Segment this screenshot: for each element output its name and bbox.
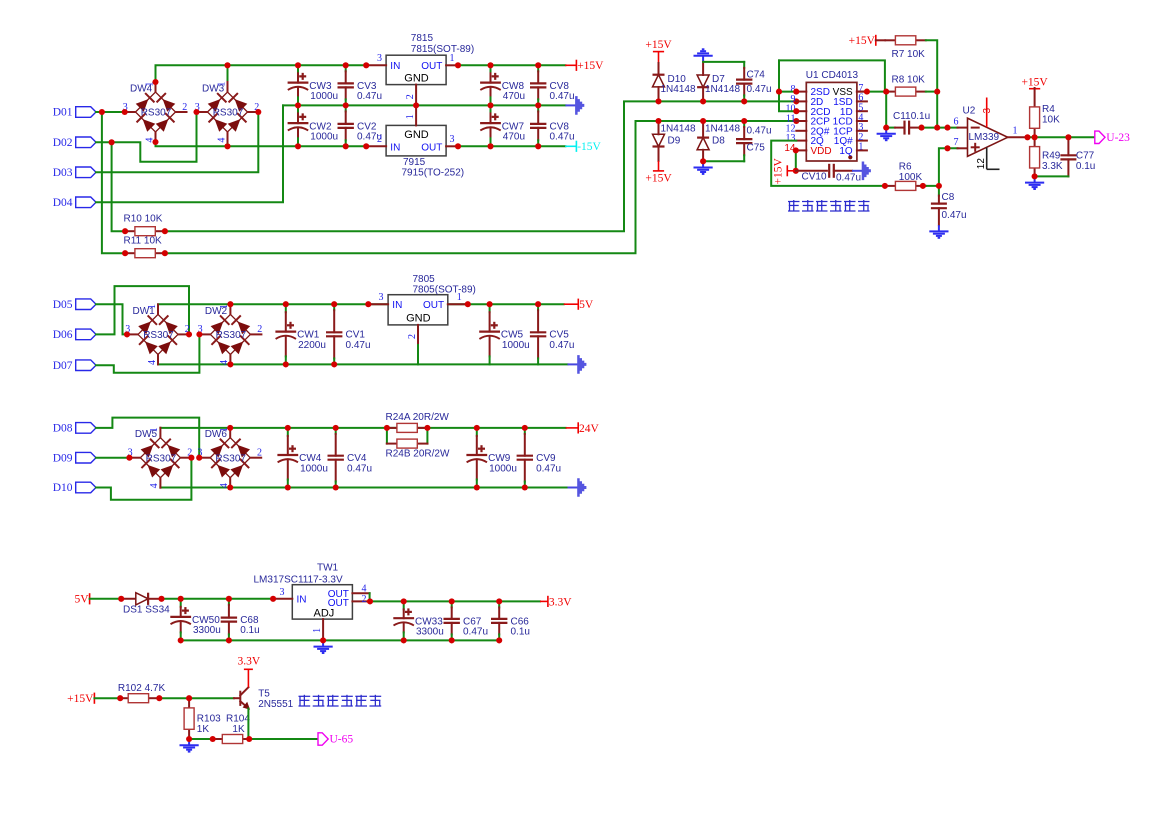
svg-text:0.1u: 0.1u bbox=[240, 625, 259, 636]
pin 7 of U2 bbox=[958, 147, 968, 149]
junction bbox=[496, 598, 502, 604]
svg-text:2: 2 bbox=[257, 324, 262, 335]
junction bbox=[883, 89, 889, 95]
junction bbox=[343, 62, 349, 68]
svg-text:0.47u: 0.47u bbox=[346, 340, 371, 351]
pin 2 (GND) of 7815 bbox=[415, 85, 417, 106]
resistor R103 bbox=[184, 697, 221, 739]
svg-text:3: 3 bbox=[379, 292, 384, 303]
junction bbox=[449, 637, 455, 643]
junction bbox=[700, 158, 706, 164]
bridge rectifier DW4 bbox=[123, 82, 188, 143]
svg-text:0.47u: 0.47u bbox=[747, 84, 772, 95]
wire bbox=[886, 127, 895, 129]
capacitor C67 bbox=[444, 601, 489, 640]
stub to 24V bbox=[566, 427, 579, 429]
svg-text:CV10: CV10 bbox=[802, 171, 827, 182]
wire bbox=[227, 65, 229, 82]
power 3.3V bbox=[548, 596, 572, 609]
junction bbox=[226, 596, 232, 602]
pin 3 of U2 bbox=[986, 98, 988, 128]
svg-text:7915(TO-252): 7915(TO-252) bbox=[402, 168, 465, 179]
junction bbox=[793, 168, 799, 174]
capacitor CV3 bbox=[338, 65, 383, 105]
svg-text:1K: 1K bbox=[197, 724, 210, 735]
regulator TW1 LM317 bbox=[254, 563, 353, 620]
wire bbox=[779, 60, 885, 91]
svg-text:1: 1 bbox=[312, 628, 323, 633]
bridge rectifier DW6 bbox=[197, 427, 262, 488]
junction bbox=[162, 250, 168, 256]
svg-text:R102 4.7K: R102 4.7K bbox=[118, 683, 166, 694]
svg-text:C8: C8 bbox=[942, 192, 955, 203]
junction bbox=[944, 125, 950, 131]
wire bbox=[938, 186, 940, 196]
svg-text:470u: 470u bbox=[503, 131, 525, 142]
svg-text:C74: C74 bbox=[747, 69, 766, 80]
capacitor CW4 bbox=[277, 428, 328, 488]
svg-text:R103: R103 bbox=[197, 714, 221, 725]
wire bbox=[417, 345, 419, 364]
capacitor CV9 bbox=[517, 428, 562, 488]
junction bbox=[126, 455, 132, 461]
svg-text:7805(SOT-89): 7805(SOT-89) bbox=[413, 285, 476, 296]
capacitor CW3 bbox=[288, 65, 339, 105]
pin of C11 bbox=[895, 127, 905, 129]
pin of C8 bbox=[938, 196, 940, 204]
junction bbox=[178, 637, 184, 643]
diode D10 bbox=[653, 75, 665, 87]
junction bbox=[227, 361, 233, 367]
svg-text:0.47u: 0.47u bbox=[747, 126, 772, 137]
junction bbox=[333, 425, 339, 431]
power ground arrow bbox=[565, 96, 584, 115]
power +15V bbox=[1021, 76, 1048, 88]
junction bbox=[343, 143, 349, 149]
svg-text:D05: D05 bbox=[53, 299, 73, 311]
wire bbox=[160, 487, 567, 489]
svg-text:U2: U2 bbox=[963, 106, 976, 117]
junction bbox=[455, 62, 461, 68]
svg-text:0.47u: 0.47u bbox=[463, 627, 488, 638]
junction bbox=[1024, 134, 1030, 140]
svg-text:1: 1 bbox=[216, 82, 227, 87]
capacitor C66 bbox=[491, 601, 530, 640]
pin of D9 bbox=[658, 147, 660, 162]
port D01 bbox=[53, 107, 96, 119]
svg-text:D09: D09 bbox=[53, 452, 73, 464]
svg-text:U-23: U-23 bbox=[1106, 132, 1130, 144]
pin 6 of U1 bbox=[857, 100, 867, 102]
wire bbox=[160, 427, 565, 429]
svg-text:1000u: 1000u bbox=[489, 463, 517, 474]
svg-text:GND: GND bbox=[406, 313, 431, 325]
wire bbox=[926, 40, 937, 127]
junction bbox=[413, 102, 419, 108]
bridge rectifier DW1 bbox=[125, 304, 190, 365]
pin of D8 bbox=[702, 121, 704, 138]
pin of D10 bbox=[658, 63, 660, 75]
svg-text:1: 1 bbox=[1013, 126, 1018, 137]
svg-text:+15V: +15V bbox=[645, 173, 672, 185]
text 电源掉电检测 bbox=[299, 695, 382, 707]
power 24V bbox=[578, 422, 599, 435]
wire bbox=[885, 92, 887, 128]
resistor R7 bbox=[885, 36, 925, 60]
diode D9 bbox=[653, 134, 665, 146]
junction bbox=[920, 183, 926, 189]
svg-text:2: 2 bbox=[182, 102, 187, 113]
svg-text:RS307: RS307 bbox=[215, 453, 246, 464]
wire bbox=[162, 598, 274, 600]
power ground arrow at CV10 bbox=[852, 162, 871, 181]
capacitor CW9 bbox=[466, 428, 517, 488]
junction bbox=[152, 79, 158, 85]
pin 7 of U1 bbox=[857, 91, 867, 93]
pin 6 of U2 bbox=[958, 127, 968, 129]
pin of CV10 bbox=[834, 170, 852, 172]
pin 1 of 7815 bbox=[446, 64, 458, 66]
pin of D9 bbox=[658, 121, 660, 134]
junction bbox=[283, 361, 289, 367]
junction bbox=[918, 125, 924, 131]
svg-text:0.1u: 0.1u bbox=[911, 111, 930, 122]
junction bbox=[246, 736, 252, 742]
wire bbox=[370, 600, 540, 602]
stub to 3.3V bbox=[540, 600, 548, 602]
wire bbox=[96, 457, 129, 459]
junction bbox=[118, 596, 124, 602]
pin 12 of U2 bbox=[987, 147, 1000, 169]
junction bbox=[864, 89, 870, 95]
svg-text:C11: C11 bbox=[893, 111, 911, 122]
junction bbox=[295, 143, 301, 149]
pin 3 of TW1 bbox=[273, 598, 292, 600]
junction bbox=[535, 102, 541, 108]
pin 8 of U1 bbox=[796, 91, 806, 93]
junction bbox=[741, 118, 747, 124]
wire bbox=[458, 145, 565, 147]
junction bbox=[224, 62, 230, 68]
svg-text:0.47u: 0.47u bbox=[536, 463, 561, 474]
junction bbox=[700, 118, 706, 124]
junction bbox=[178, 596, 184, 602]
pin 3 of 7805 bbox=[368, 303, 388, 305]
junction bbox=[283, 301, 289, 307]
junction bbox=[295, 62, 301, 68]
wire bbox=[779, 60, 796, 111]
junction bbox=[465, 301, 471, 307]
svg-text:1K: 1K bbox=[232, 724, 245, 735]
power +15V bbox=[565, 60, 604, 72]
junction bbox=[522, 425, 528, 431]
pin of D8 bbox=[702, 150, 704, 162]
pin of D7 bbox=[702, 62, 704, 75]
junction bbox=[186, 736, 192, 742]
pin 12 of U1 bbox=[796, 130, 806, 132]
junction bbox=[224, 143, 230, 149]
wire bbox=[96, 141, 112, 143]
wire to +15V bbox=[658, 161, 660, 171]
junction bbox=[188, 455, 194, 461]
wire bbox=[227, 142, 229, 146]
svg-text:3.3K: 3.3K bbox=[1042, 161, 1063, 172]
svg-text:3: 3 bbox=[982, 108, 993, 114]
svg-text:ADJ: ADJ bbox=[314, 608, 335, 620]
pin 2 of U1 bbox=[857, 140, 867, 142]
wire bbox=[156, 65, 367, 82]
svg-text:3.3V: 3.3V bbox=[549, 596, 572, 608]
junction bbox=[741, 98, 747, 104]
junction bbox=[793, 147, 799, 153]
svg-text:1N4148: 1N4148 bbox=[705, 84, 740, 95]
pin 13 of U1 bbox=[796, 140, 806, 142]
svg-text:10K: 10K bbox=[1042, 115, 1060, 126]
svg-text:LM317SC1117-3.3V: LM317SC1117-3.3V bbox=[254, 575, 343, 586]
pin 10 of U1 bbox=[796, 110, 806, 112]
wire bbox=[369, 593, 371, 601]
svg-text:4: 4 bbox=[149, 483, 160, 488]
pin 1 (ADJ) of TW1 bbox=[322, 619, 324, 640]
power +15V at R7 bbox=[849, 35, 876, 47]
junction bbox=[1032, 134, 1038, 140]
diode D8 bbox=[697, 138, 709, 150]
svg-text:+15V: +15V bbox=[645, 39, 672, 51]
junction bbox=[522, 484, 528, 490]
junction bbox=[365, 301, 371, 307]
junction bbox=[655, 118, 661, 124]
junction bbox=[487, 62, 493, 68]
wire bbox=[94, 697, 120, 699]
svg-text:1N4148: 1N4148 bbox=[661, 124, 696, 135]
wire bbox=[926, 91, 937, 93]
wire bbox=[458, 64, 565, 66]
svg-text:D08: D08 bbox=[53, 423, 73, 435]
junction bbox=[270, 596, 276, 602]
resistor R24A bbox=[386, 412, 450, 433]
svg-text:0.47u: 0.47u bbox=[549, 340, 574, 351]
junction bbox=[156, 695, 162, 701]
wire bbox=[771, 141, 885, 186]
junction bbox=[1032, 173, 1038, 179]
wire bbox=[165, 121, 796, 253]
svg-text:3300u: 3300u bbox=[416, 627, 444, 638]
svg-text:GND: GND bbox=[404, 73, 429, 85]
junction bbox=[109, 139, 115, 145]
svg-text:IN: IN bbox=[392, 300, 402, 311]
svg-text:OUT: OUT bbox=[423, 300, 444, 311]
bridge rectifier DW3 bbox=[195, 82, 260, 143]
wire to R7 bbox=[876, 39, 885, 41]
resistor R102 bbox=[118, 683, 166, 703]
junction bbox=[226, 637, 232, 643]
power +15V bbox=[645, 171, 672, 185]
wire bbox=[703, 61, 744, 63]
ground below R49 bbox=[1025, 176, 1044, 189]
junction bbox=[487, 301, 493, 307]
svg-text:0.47u: 0.47u bbox=[357, 91, 382, 102]
svg-text:0.47u: 0.47u bbox=[942, 210, 967, 221]
svg-text:VDD: VDD bbox=[811, 146, 832, 157]
pin 3 of 7915 bbox=[446, 145, 458, 147]
wire bbox=[102, 112, 125, 253]
wire bbox=[426, 428, 428, 444]
pin 1 of U1 bbox=[857, 149, 867, 151]
junction bbox=[401, 637, 407, 643]
svg-text:U-65: U-65 bbox=[330, 734, 354, 746]
svg-text:0.1u: 0.1u bbox=[511, 627, 530, 638]
junction bbox=[449, 598, 455, 604]
svg-text:R49: R49 bbox=[1042, 151, 1061, 162]
junction bbox=[655, 98, 661, 104]
capacitor CW7 bbox=[480, 105, 525, 146]
capacitor CV1 bbox=[326, 304, 371, 364]
resistor R49 bbox=[1030, 137, 1063, 176]
svg-text:U1 CD4013: U1 CD4013 bbox=[806, 70, 859, 81]
wire bbox=[159, 697, 234, 699]
capacitor CV5 bbox=[530, 304, 575, 364]
svg-text:RS307: RS307 bbox=[141, 108, 172, 119]
capacitor C74 bbox=[736, 62, 752, 102]
capacitor C8 bbox=[931, 192, 967, 225]
junction bbox=[793, 98, 799, 104]
resistor R4 bbox=[1030, 88, 1061, 138]
svg-text:3300u: 3300u bbox=[193, 625, 221, 636]
bridge rectifier DW2 bbox=[198, 304, 263, 365]
base pin of T5 bbox=[234, 697, 239, 699]
junction bbox=[934, 125, 940, 131]
svg-text:LM339: LM339 bbox=[969, 132, 1000, 143]
op-amp U2 LM339 bbox=[963, 106, 1008, 157]
svg-text:0.47u: 0.47u bbox=[836, 173, 861, 184]
svg-text:2: 2 bbox=[407, 334, 418, 339]
svg-text:D01: D01 bbox=[53, 107, 73, 119]
svg-text:R104: R104 bbox=[226, 714, 250, 725]
svg-text:-15V: -15V bbox=[577, 141, 601, 153]
junction bbox=[883, 125, 889, 131]
svg-text:0.1u: 0.1u bbox=[1076, 161, 1095, 172]
svg-text:C75: C75 bbox=[747, 143, 766, 154]
pin 9 of U1 bbox=[796, 100, 806, 102]
svg-text:1000u: 1000u bbox=[300, 463, 328, 474]
svg-text:GND: GND bbox=[404, 129, 429, 141]
junction bbox=[210, 736, 216, 742]
capacitor CV2 bbox=[338, 105, 383, 146]
pin 2 of 7915 bbox=[366, 145, 386, 147]
svg-text:D06: D06 bbox=[53, 329, 73, 341]
svg-text:D04: D04 bbox=[53, 197, 73, 209]
svg-text:12: 12 bbox=[976, 158, 987, 170]
svg-text:D02: D02 bbox=[53, 137, 73, 149]
svg-text:1: 1 bbox=[457, 292, 462, 303]
svg-text:1000u: 1000u bbox=[310, 131, 338, 142]
capacitor CV4 bbox=[328, 428, 373, 488]
pin 1 of 7805 bbox=[448, 303, 468, 305]
junction bbox=[367, 598, 373, 604]
junction bbox=[1065, 134, 1071, 140]
svg-text:5V: 5V bbox=[579, 299, 594, 311]
svg-text:7915: 7915 bbox=[403, 157, 426, 168]
port D06 bbox=[53, 329, 96, 341]
wire bbox=[779, 91, 796, 93]
capacitor C11 bbox=[905, 121, 910, 135]
svg-text:R8 10K: R8 10K bbox=[892, 75, 926, 86]
ground below D8 bbox=[694, 161, 713, 174]
ground above D7 bbox=[694, 49, 713, 62]
junction bbox=[474, 484, 480, 490]
pin 3 of 7815 bbox=[366, 64, 386, 66]
power ground arrow bbox=[568, 478, 587, 497]
wire bbox=[181, 639, 500, 641]
port U-65 bbox=[318, 733, 353, 746]
svg-text:D07: D07 bbox=[53, 360, 73, 372]
svg-text:+15V: +15V bbox=[773, 158, 785, 185]
junction bbox=[186, 695, 192, 701]
wire bbox=[923, 185, 939, 187]
resistor R24B bbox=[386, 439, 450, 459]
wire bbox=[112, 112, 197, 162]
junction bbox=[295, 102, 301, 108]
diode D7 bbox=[697, 75, 709, 87]
junction bbox=[793, 89, 799, 95]
transistor T5 2N5551 bbox=[240, 669, 293, 710]
svg-text:DS1 SS34: DS1 SS34 bbox=[123, 604, 170, 615]
wire bbox=[1028, 136, 1095, 138]
svg-text:R6: R6 bbox=[899, 162, 912, 173]
svg-text:RS307: RS307 bbox=[146, 453, 177, 464]
svg-text:2: 2 bbox=[405, 94, 416, 99]
svg-text:1: 1 bbox=[858, 142, 863, 153]
junction bbox=[793, 108, 799, 114]
ground below C8 bbox=[929, 225, 948, 238]
svg-text:470u: 470u bbox=[503, 91, 525, 102]
resistor R11 bbox=[124, 236, 166, 258]
svg-text:24V: 24V bbox=[579, 423, 600, 435]
regulator U 7915 bbox=[386, 125, 464, 178]
power +15V at R102 bbox=[67, 693, 94, 706]
svg-text:D03: D03 bbox=[53, 167, 73, 179]
ground below R103 bbox=[180, 739, 199, 752]
wire bbox=[165, 101, 796, 231]
resistor R104 bbox=[213, 714, 251, 744]
svg-text:1Q: 1Q bbox=[839, 146, 853, 157]
pin 2 of TW1 bbox=[352, 600, 369, 602]
svg-text:IN: IN bbox=[390, 143, 400, 154]
wire bbox=[96, 105, 283, 202]
capacitor CW50 bbox=[170, 599, 221, 641]
junction bbox=[162, 228, 168, 234]
resistor R6 bbox=[885, 162, 925, 191]
IC U1 CD4013 body bbox=[806, 70, 859, 161]
pin of D7 bbox=[702, 87, 704, 101]
svg-text:3: 3 bbox=[377, 53, 382, 64]
power +15V bbox=[645, 39, 672, 63]
svg-text:3: 3 bbox=[280, 587, 285, 598]
svg-text:1000u: 1000u bbox=[502, 340, 530, 351]
port D08 bbox=[53, 423, 96, 435]
stub to 5V bbox=[564, 303, 579, 305]
svg-text:2200u: 2200u bbox=[298, 340, 326, 351]
junction bbox=[936, 183, 942, 189]
wire bbox=[96, 286, 189, 334]
junction bbox=[343, 102, 349, 108]
svg-text:RS307: RS307 bbox=[143, 330, 174, 341]
wire bbox=[919, 127, 958, 129]
junction bbox=[124, 331, 130, 337]
resistor R8 bbox=[885, 75, 925, 96]
regulator U 7805 bbox=[388, 274, 476, 325]
pin 14 of U1 bbox=[796, 149, 806, 151]
